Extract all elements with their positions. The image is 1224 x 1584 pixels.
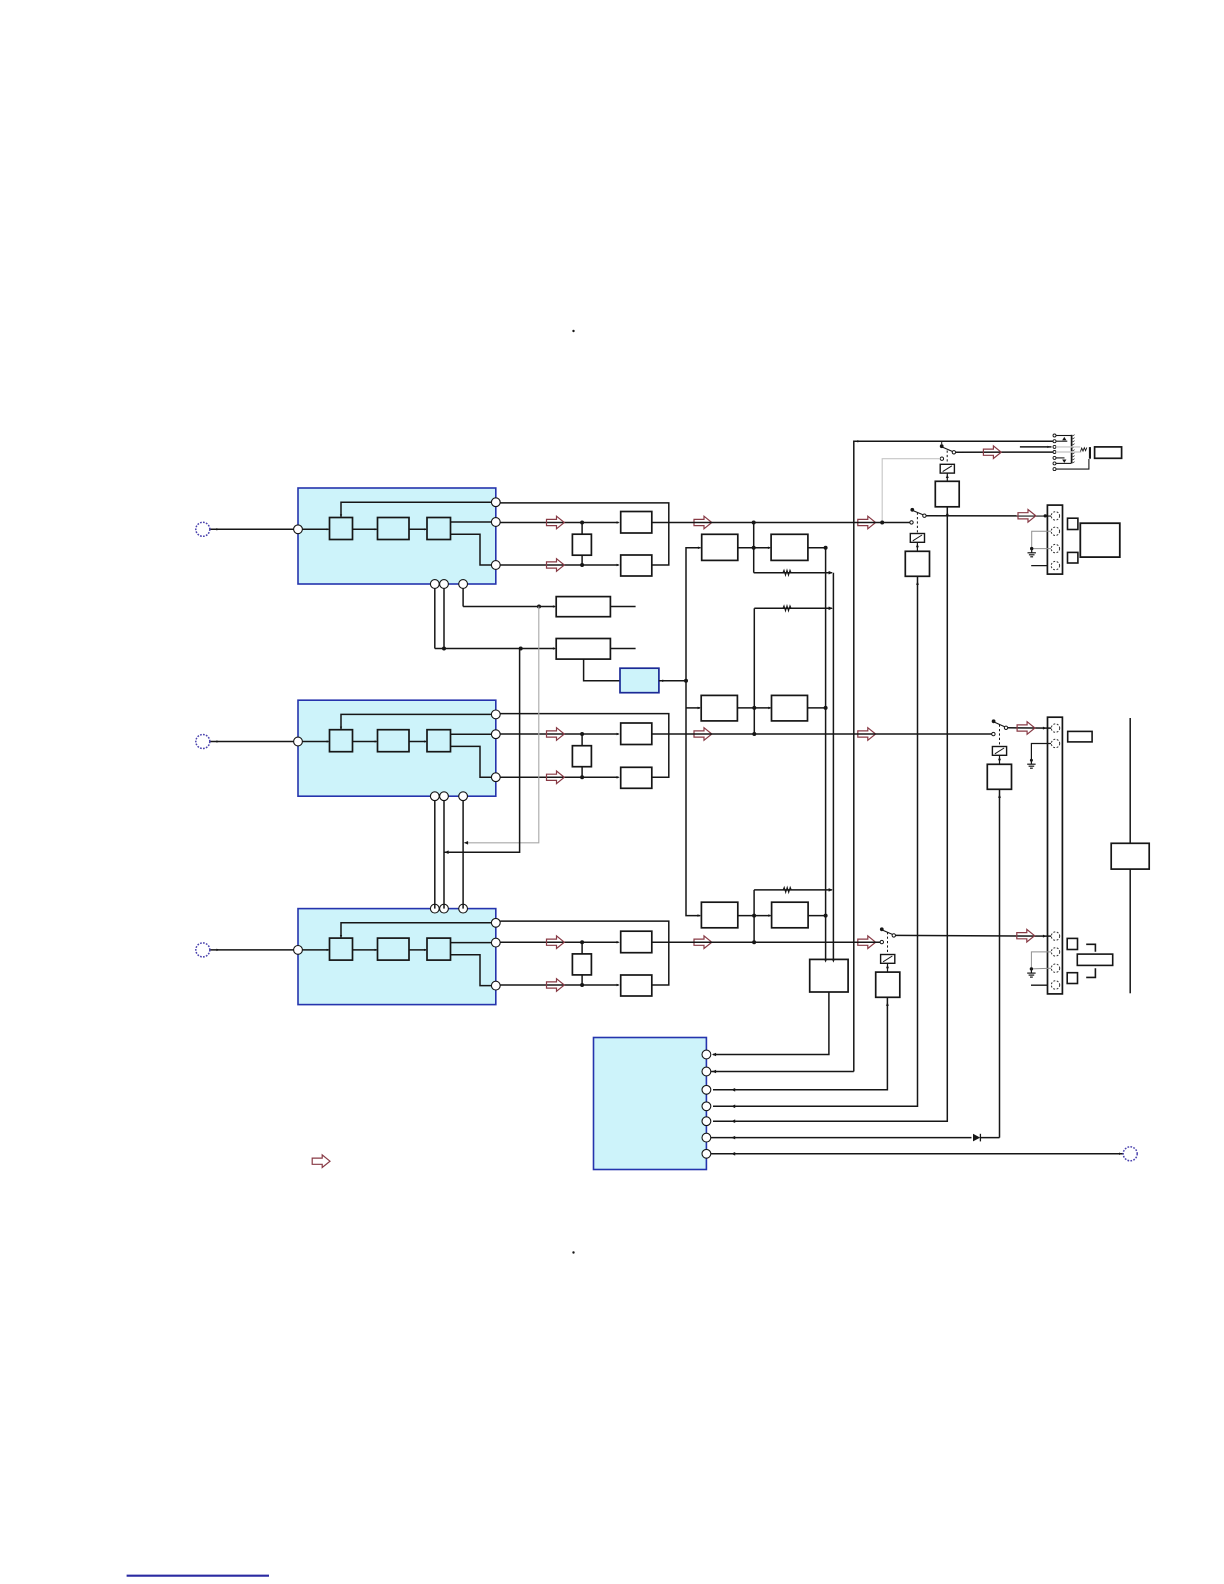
input wire IC3 bottom source block: [210, 949, 329, 952]
internal stage 3 IC2 middle source block: [427, 730, 451, 752]
S3 drive line: [998, 789, 1001, 1137]
switch S2: [910, 508, 926, 533]
stage3 lower output wire IC3 bottom source block: [451, 955, 496, 986]
feedback resistor line 1: [754, 570, 833, 575]
relay stub S3: [998, 755, 1001, 764]
CN2 key square lower: [1067, 973, 1077, 984]
jack body bar: [1089, 447, 1091, 459]
feedback resistor line 2: [754, 606, 833, 611]
signal arrow S4 out: [1017, 929, 1035, 942]
main wire to filter L channel: [500, 521, 620, 524]
signal arrow C channel a2: [694, 728, 712, 741]
bus feed vertical v1: [686, 546, 701, 916]
shunt block L channel: [572, 523, 591, 566]
R main bus wire: [669, 941, 880, 943]
driver block S2: [905, 551, 929, 576]
CN1 key square upper: [1068, 518, 1078, 529]
right bus lower segment: [1129, 869, 1131, 993]
filter block upper C channel: [621, 723, 652, 745]
signal arrow L channel a2: [694, 516, 712, 529]
CN2 key square upper: [1067, 938, 1077, 949]
coupling wire top R channel: [500, 921, 669, 942]
junction S1 gray on L bus: [880, 521, 884, 525]
bottom edge nodes IC1: [430, 580, 467, 589]
output node low IC3 bottom source block: [491, 981, 500, 990]
CN2 pin4 wire: [1031, 984, 1048, 986]
signal arrow C channel a1: [547, 728, 565, 741]
signal arrow R channel a2: [694, 936, 712, 949]
driver block S1: [935, 481, 959, 507]
node on left edge IC1 top source block: [294, 525, 303, 534]
low wire to filter C channel: [500, 776, 620, 779]
signal arrow S3 out: [1017, 722, 1035, 735]
IC4 right edge nodes: [702, 1050, 711, 1158]
filter block lower L channel: [621, 555, 652, 576]
internal stage 3 IC3 bottom source block: [427, 938, 451, 960]
CN2 pins bottom: [1051, 932, 1059, 989]
low wire to filter L channel: [500, 564, 620, 567]
IC4 wire c6: [711, 1136, 972, 1140]
xover rect D: [772, 695, 808, 721]
switch S3: [992, 719, 1008, 746]
right bus upper segment: [1129, 718, 1131, 843]
S2 output wire: [926, 514, 1051, 517]
internal stage 2 IC1 top source block: [378, 518, 410, 540]
CN2 bottom ground wiring: [1030, 952, 1051, 971]
S1 NC gray wire: [882, 459, 940, 522]
headphone feed wire: [854, 440, 1053, 1072]
CN1 pin4 wire: [1031, 565, 1047, 567]
bottom edge nodes IC2: [430, 792, 467, 801]
feedback wire IC2 middle source block: [340, 714, 496, 729]
wire to delay block 1: [463, 605, 556, 609]
IC4 wire c3 arrow: [731, 1088, 735, 1092]
filter block upper R channel: [621, 931, 652, 953]
ground symbol CN1: [1028, 549, 1036, 557]
free signal arrow: [312, 1155, 330, 1168]
CN1 pins: [1051, 512, 1059, 570]
driver block S3: [987, 764, 1011, 789]
period mark bottom: [572, 1251, 574, 1253]
signal arrow C channel a1b: [547, 771, 565, 784]
signal arrow L channel a1b: [547, 559, 565, 572]
S4 output wire: [896, 935, 1052, 938]
IC4 wire c7 to terminal: [711, 1152, 1123, 1156]
junction L channel low: [580, 563, 584, 567]
ground symbol CN2 top: [1027, 761, 1035, 769]
output node main IC1 top source block: [491, 518, 500, 527]
input wire IC1 top source block: [210, 528, 329, 531]
feedback wire IC3 bottom source block: [340, 923, 496, 938]
S4 drive line: [713, 997, 889, 1090]
wire C to D: [737, 706, 771, 710]
driver block S4: [876, 972, 900, 997]
headphone jack pins: [1053, 434, 1056, 471]
stage2-stage3 wire IC1 top source block: [409, 528, 427, 530]
main wire to filter R channel: [500, 941, 620, 944]
collector vertical v4: [825, 548, 827, 960]
B output to v4: [808, 546, 828, 550]
xover rect A: [702, 534, 738, 560]
speaker connector CN1: [1047, 505, 1062, 574]
footer rule: [127, 1575, 269, 1577]
feedback wire IC1 top source block: [340, 502, 496, 517]
stage3 upper output wire IC2 middle source block: [451, 733, 496, 735]
G output wire to IC block: [712, 992, 829, 1056]
wire to delay block 2: [435, 647, 556, 651]
output node top IC1 top source block: [491, 498, 500, 507]
internal stage 3 IC1 top source block: [427, 518, 451, 540]
top edge nodes IC3: [430, 904, 467, 913]
signal arrow R channel a1: [547, 936, 565, 949]
relay coil S4: [881, 955, 895, 964]
stage1-stage2 wire IC2 middle source block: [353, 740, 378, 742]
output terminal circle: [1119, 1147, 1137, 1161]
internal stage 1 IC1 top source block: [330, 518, 353, 540]
delay block 1: [556, 597, 610, 617]
IC2 middle source block: [298, 700, 496, 796]
tap vertical v2b: [752, 608, 756, 736]
main wire to filter C channel: [500, 733, 620, 736]
coupling wire top L channel: [500, 503, 669, 523]
mix block (cyan): [620, 668, 659, 693]
delay block 2 output stub: [610, 648, 635, 650]
shunt block R channel: [572, 942, 591, 985]
input wire IC2 middle source block: [210, 740, 329, 743]
CN1 ground wiring: [1030, 531, 1051, 550]
S3 output wire: [1008, 727, 1051, 730]
headphone jack shell rect: [1095, 447, 1122, 458]
IC2 to IC3 wires: [435, 801, 463, 909]
stage2-stage3 wire IC2 middle source block: [409, 740, 427, 742]
signal arrow S1 out: [983, 446, 1001, 459]
xover rect B: [771, 534, 808, 560]
coupling wire top C channel: [500, 714, 669, 734]
S2 drive line: [713, 576, 919, 1106]
right bus block: [1111, 843, 1149, 869]
IC1 aux node wires down: [435, 588, 463, 648]
input terminal circle IC3 bottom source block: [196, 943, 210, 957]
CN2 plug rect: [1077, 954, 1112, 965]
headphone jack pin wire y447: [1020, 446, 1052, 448]
filter outputs merge C channel: [652, 734, 669, 777]
D output to v4: [808, 706, 828, 710]
mix block right wire: [659, 679, 688, 683]
period mark top: [572, 330, 574, 332]
junction C channel low: [580, 775, 584, 779]
internal stage 2 IC2 middle source block: [378, 730, 410, 752]
internal stage 2 IC3 bottom source block: [378, 938, 410, 960]
jack sleeve bar with hatching: [1072, 435, 1075, 464]
jack ring contact: [1056, 458, 1071, 464]
IC1 top source block: [298, 488, 496, 584]
relay stub S1: [946, 473, 949, 481]
internal stage 1 IC3 bottom source block: [330, 938, 353, 960]
relay coil S1: [940, 464, 954, 473]
wire E to F: [738, 914, 772, 918]
stage3 lower output wire IC2 middle source block: [451, 746, 496, 777]
signal arrow S2 out: [1018, 510, 1036, 523]
signal arrow R channel a1b: [547, 979, 565, 992]
wire A to B: [738, 546, 771, 550]
signal arrow R channel a3: [858, 936, 876, 949]
output node main IC2 middle source block: [491, 730, 500, 739]
stage1-stage2 wire IC3 bottom source block: [353, 949, 378, 951]
connector CN2 tall strip: [1048, 717, 1063, 994]
stage3 upper output wire IC1 top source block: [451, 521, 496, 523]
jack sleeve wire: [1056, 459, 1089, 469]
tap vertical v2c: [752, 890, 756, 944]
IC4 wire c4 arrow: [731, 1105, 735, 1109]
CN2 pins top: [1051, 724, 1059, 748]
output node main IC3 bottom source block: [491, 938, 500, 947]
ground symbol CN2 bottom: [1027, 970, 1035, 978]
stage2-stage3 wire IC3 bottom source block: [409, 949, 427, 951]
CN1 key square lower: [1068, 552, 1078, 563]
speaker plug body top: [1080, 523, 1120, 557]
stage3 upper output wire IC3 bottom source block: [451, 942, 496, 944]
feedback vertical v5: [832, 573, 834, 960]
CN2 top ground wiring: [1030, 744, 1051, 762]
junction R channel low: [580, 983, 584, 987]
S1 output wire to jack: [956, 451, 1053, 453]
switch S4: [880, 927, 896, 954]
internal stage 1 IC2 middle source block: [330, 730, 353, 752]
S1 drive line: [713, 507, 949, 1121]
jack spring lines: [1056, 447, 1087, 452]
output node low IC1 top source block: [491, 561, 500, 570]
filter block lower C channel: [621, 767, 652, 788]
node on left edge IC2 middle source block: [294, 737, 303, 746]
output node top IC2 middle source block: [491, 710, 500, 719]
relay coil S3: [992, 747, 1006, 756]
signal arrow C channel a3: [858, 728, 876, 741]
relay stub S4: [886, 963, 889, 972]
xover rect E: [701, 902, 737, 928]
L main bus wire: [669, 522, 910, 524]
relay stub S2: [916, 542, 919, 551]
F output to v4: [808, 914, 828, 918]
tap vertical v2a: [752, 521, 756, 573]
signal arrow L channel a3: [858, 516, 876, 529]
CN2 plug bracket upper: [1086, 944, 1095, 951]
xover rect C: [701, 695, 737, 721]
low wire to filter R channel: [500, 984, 620, 987]
node on left edge IC3 bottom source block: [294, 946, 303, 955]
diode D1: [973, 1134, 1000, 1142]
relay coil S2: [910, 534, 924, 543]
filter block upper L channel: [621, 512, 652, 534]
C main bus wire: [669, 733, 992, 735]
system control block IC4: [594, 1038, 707, 1170]
gray return path to IC2: [464, 607, 539, 845]
junction C channel main: [580, 732, 584, 736]
feedback resistor line 3: [754, 887, 833, 892]
input terminal circle IC2 middle source block: [196, 735, 210, 749]
jack tip contact: [1056, 436, 1071, 442]
filter outputs merge R channel: [652, 942, 669, 985]
summing block G: [810, 959, 848, 992]
filter block lower R channel: [621, 975, 652, 996]
output node low IC2 middle source block: [491, 773, 500, 782]
IC3 bottom source block: [298, 909, 496, 1005]
filter outputs merge L channel: [652, 523, 669, 566]
IC4 wire c5 arrow: [731, 1119, 735, 1123]
stage1-stage2 wire IC1 top source block: [353, 528, 378, 530]
wire delay2 to mix block: [584, 659, 620, 681]
CN2 plug bracket lower: [1086, 968, 1095, 977]
delay block 1 output stub: [610, 606, 635, 608]
switch S1: [940, 441, 956, 464]
junction R channel main: [580, 940, 584, 944]
delay block 2: [556, 639, 610, 660]
black return path to IC2: [444, 649, 519, 854]
CN2 aux rect: [1068, 731, 1092, 742]
xover rect F: [772, 902, 809, 928]
output node top IC3 bottom source block: [491, 918, 500, 927]
shunt block C channel: [572, 734, 591, 777]
signal arrow L channel a1: [547, 516, 565, 529]
stage3 lower output wire IC1 top source block: [451, 534, 496, 565]
arrow into IC3 hp node: [711, 1070, 854, 1074]
input terminal circle IC1 top source block: [196, 522, 210, 536]
junction L channel main: [580, 521, 584, 525]
